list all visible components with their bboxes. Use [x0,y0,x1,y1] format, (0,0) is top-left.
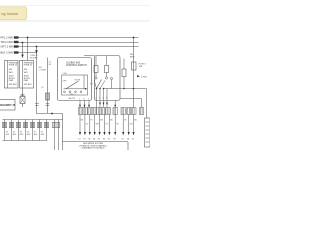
wire W2 [14,42,139,44]
bottom note box [63,142,129,152]
svg-text:FUSE 12: FUSE 12 [24,65,33,67]
wires module A to connector strip [79,101,81,108]
switch terminal T2 [69,91,71,93]
switch lever U2 alt2 [100,81,105,89]
svg-text:94: 94 [93,139,95,141]
left connector row cells [2,123,60,128]
arrow down splice S1 [21,55,23,59]
svg-text:90: 90 [114,139,116,141]
arrow into connector c [106,103,108,106]
svg-text:5 RED: 5 RED [141,77,148,79]
wire W4 [14,52,37,54]
svg-text:97: 97 [122,139,124,141]
node U2 t3 [103,88,105,90]
wire drop from W3 node [36,47,38,53]
wire fuse feed from W1 [133,38,135,108]
node fuse junction [133,37,135,39]
svg-text:1: 1 [79,99,80,101]
contact circle U2 b [105,77,107,79]
connector arrow W2 left [14,41,19,43]
svg-text:F8 DR2: F8 DR2 [30,57,38,59]
wires module B to connector strip [96,101,98,108]
left bottom bus [3,119,63,121]
svg-text:2: 2 [95,98,96,100]
svg-text:92: 92 [103,139,105,141]
module box U1 GLOBAL W/S CONTROL SWITCH [58,58,92,101]
switch inner vertical [83,75,85,89]
left drop labels [6,132,45,137]
connector arrow W1 left [14,36,19,38]
switch inner box U1 [62,75,88,95]
label box bottom-left [0,100,15,111]
wire through R1 [95,56,97,66]
svg-text:4: 4 [106,98,107,100]
splice block G200 [20,97,25,104]
svg-text:FUSE 12: FUSE 12 [9,65,18,67]
labels below arrows [78,139,134,141]
switch lever U2 alt [94,80,97,89]
switch terminal T4 [80,91,82,93]
svg-text:ng tutorial: ng tutorial [2,12,19,16]
switch lever U2 main [97,80,102,89]
svg-text:P 5: P 5 [90,84,93,86]
wire vertical run from W4 [37,53,63,143]
switch terminal T3 [75,91,77,93]
yellow ad chip [0,7,27,20]
switch lever [66,81,79,89]
wire U2 contact c stub [111,80,113,89]
right vertical strip connector [145,118,151,147]
svg-text:91: 91 [108,139,110,141]
wire U2 drop d [106,89,108,101]
svg-text:LWR: LWR [9,80,14,82]
svg-text:GLOBAL W/S: GLOBAL W/S [66,61,81,64]
node W1 junction [27,37,29,39]
fuse F8 [132,62,137,70]
node U2 t1 [96,88,98,90]
svg-text:TAN 2 WAY: TAN 2 WAY [1,40,15,44]
svg-text:PIN 4: PIN 4 [70,94,76,96]
svg-text:95: 95 [98,139,100,141]
svg-text:BLK/WHT 45: BLK/WHT 45 [0,104,16,107]
svg-text:4A OFF: 4A OFF [69,97,76,100]
wire W1 [14,37,139,39]
node W3 junction [36,46,38,48]
switch throw arrow [85,88,87,90]
header top rule [0,5,150,7]
wire W3 [14,46,139,48]
arrow into connector a0 [79,105,81,107]
svg-text:451 BLK: 451 BLK [24,84,33,86]
svg-text:BLK 2 WAY: BLK 2 WAY [1,51,15,55]
contact circle U2 a [95,77,97,79]
node W2 junction [22,42,24,44]
resistor R2 [105,66,109,73]
connector box L2 [20,61,34,89]
wire U2 drop c [103,89,105,101]
wire vertical run center C2 [47,58,49,114]
wire labels beside drops [81,120,138,126]
node U2 t2 [99,88,101,90]
wire U2 to right strip [120,89,147,119]
resistor R3 [122,69,126,77]
contact circle U2 c [110,77,112,79]
inline connector ticks on C2 run [46,103,50,105]
svg-text:5: 5 [102,98,103,100]
connector block center [46,93,50,100]
svg-text:INT HI: INT HI [75,80,81,82]
svg-text:W/S: W/S [9,72,14,74]
left bottom drops [5,120,59,151]
wire through R3 [123,59,125,70]
switch terminal T1 [64,91,66,93]
inline connector ticks on W4 run [35,103,39,105]
svg-text:10A: 10A [139,65,143,68]
connector ticks S202 [21,93,25,95]
wire L1 internal [7,61,9,89]
svg-text:93: 93 [83,139,85,141]
wire L2 internal [22,61,24,89]
switch throw line [64,88,86,90]
svg-text:LT GRN: LT GRN [39,69,47,71]
svg-text:96: 96 [88,139,90,141]
svg-text:28: 28 [127,139,129,141]
svg-text:CONTROL SWITCH: CONTROL SWITCH [66,65,87,67]
svg-text:GRY 2 WAY: GRY 2 WAY [1,45,15,49]
connector strip row (hatched cells) [79,108,144,115]
wires below strip with arrows [80,115,134,133]
node R3 bus [123,88,125,90]
wire U2 drop a [96,89,98,101]
svg-text:19: 19 [78,139,80,141]
svg-text:B1: B1 [49,64,51,66]
svg-text:8: 8 [84,99,85,101]
wire U2 to right connector [120,99,142,108]
svg-text:BRN: BRN [130,57,135,59]
wire stub below L2 [22,88,24,97]
svg-text:PL: PL [91,120,93,122]
svg-text:3: 3 [99,98,100,100]
header bottom rule [0,20,150,22]
connector arrow W4 left [14,51,19,53]
svg-text:PPL 2 WAY: PPL 2 WAY [1,36,15,40]
svg-text:57: 57 [132,139,134,141]
arrow into connector a [99,103,101,106]
wire U2 bus to right edge [104,88,121,90]
node fuse bus crossing [133,88,135,90]
module box U2 [95,56,121,101]
splice arrow right [137,75,140,77]
wire below splice [22,104,24,108]
node bus junction [51,113,53,115]
arrow down on W3 drop [35,50,38,53]
svg-text:W/S: W/S [24,72,29,74]
left bottom rail [3,140,48,142]
connector arrow W3 left [14,45,19,47]
wire through R2 [106,56,108,66]
connector box L1 [5,61,19,89]
arrowheads row [79,132,135,135]
wire drop from W2 node [22,43,24,55]
resistor R1 [94,66,98,73]
svg-text:OG: OG [105,124,108,126]
svg-text:2: 2 [88,99,89,101]
svg-text:LWR: LWR [24,80,29,82]
arrow into connector b [103,103,105,106]
wire U2 drop b [99,89,101,101]
wire jog into U2 top [84,55,95,57]
svg-text:DIAGRAM FOR DETAILS: DIAGRAM FOR DETAILS [82,147,106,150]
svg-text:451 BLK: 451 BLK [9,84,18,86]
wire drop from W1 node [27,38,29,61]
